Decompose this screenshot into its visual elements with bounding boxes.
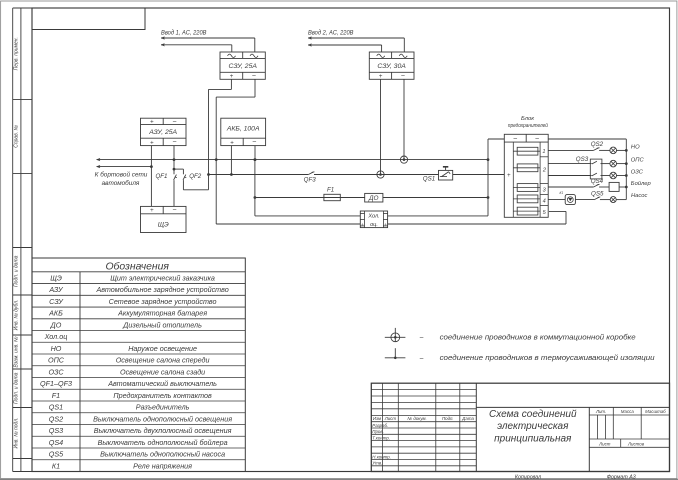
svg-text:ЩЭ: ЩЭ [50,273,62,282]
junction-box connection on positive line [377,171,384,178]
node: АКБ- on bus [254,158,257,161]
svg-text:Инв. № подл.: Инв. № подл. [14,417,20,448]
wire: heater line [255,197,365,199]
wire: СЗУ1 + jog to node [230,79,232,89]
wire: pin2 upper to QS3 [548,163,591,165]
table row QF1–QF3 [32,377,245,379]
node: АЗУ+ and arrow line [150,165,153,168]
svg-text:Перв. примен.: Перв. примен. [14,37,20,70]
switch QS4 [593,185,598,188]
svg-text:QS5: QS5 [49,450,64,459]
svg-text:+: + [379,73,383,80]
breaker QF3 [308,172,313,175]
title block right section [589,414,669,416]
svg-text:оц.: оц. [370,222,378,228]
node: НО on return bus [625,149,628,152]
fuses inside block [513,150,540,152]
svg-text:F1: F1 [52,391,60,400]
svg-text:Схема соединений: Схема соединений [489,409,577,420]
relay К1 box [565,195,575,205]
battery АКБ 100А [221,118,266,145]
svg-text:НО: НО [51,344,62,353]
svg-text:Т.контр.: Т.контр. [372,436,390,441]
table row ДО [32,318,245,320]
svg-text:Утв.: Утв. [372,461,382,466]
svg-text:Справ. №: Справ. № [14,124,20,147]
wire: input1 vert from upper line to СЗУ1 right ~ [254,38,256,52]
svg-text:QS2: QS2 [49,414,63,423]
wire: СЗУ1 - jog to bus [254,79,256,97]
table row К1 [32,459,245,461]
table row НО [32,341,245,343]
junction-box connection on bus [400,156,407,163]
svg-text:Н.контр.: Н.контр. [372,454,391,459]
wire: lamp НО to return bus [617,149,627,151]
switch QS3 two-pole box [590,159,602,179]
wire: input2 vert to СЗУ2 right ~ [403,38,405,52]
wire: СЗУ2- down to bus [403,79,405,159]
svg-text:+: + [230,73,234,80]
svg-text:QS4: QS4 [49,438,63,447]
svg-text:Выключатель однополюсный бойле: Выключатель однополюсный бойлера [98,438,228,447]
svg-text:принципиальная: принципиальная [494,433,572,444]
wire: QS2 to lamp НО [599,149,610,151]
svg-text:Блок: Блок [521,116,534,122]
svg-text:1: 1 [542,149,545,155]
wire: pin4 to relay К1 [548,199,565,201]
table row F1 [32,388,245,390]
wire: QS3 to lamp ОЗС [601,175,611,177]
wire: node column x208.5 (СЗУ1+/QF2/positive line) [208,89,210,189]
svg-text:Пров.: Пров. [372,429,384,434]
svg-text:Подп. и дата: Подп. и дата [14,372,20,404]
svg-text:–: – [172,118,177,125]
node: СЗУ1- on bus [215,158,218,161]
car charger АЗУ 25А [141,118,187,145]
title block [371,383,669,471]
svg-text:Выключатель однополюсный насос: Выключатель однополюсный насоса [100,450,225,459]
pump Насос symbol [610,197,616,203]
svg-text:СЗУ, 30А: СЗУ, 30А [377,63,406,70]
wire: Хол.оц upper-left feed [255,215,360,217]
svg-text:ОПС: ОПС [631,158,645,164]
boiler load box [609,182,619,191]
node: ОЗС on return bus [625,174,628,177]
svg-text:5: 5 [543,210,547,216]
wire: QF2 down and jog right [182,180,184,190]
wire: pin3 to QS4 [548,186,593,188]
svg-text:Копировал: Копировал [515,474,541,480]
svg-text:Ввод 2, AC, 220В: Ввод 2, AC, 220В [308,28,354,36]
svg-text:QS2: QS2 [591,141,604,148]
svg-text:QF1: QF1 [155,173,167,180]
node: positive line start [207,173,210,176]
wire: lamp ОПС to return bus [617,163,627,165]
wire: input2 vert to СЗУ2 left ~ [381,45,383,52]
svg-text:предохранителей: предохранителей [508,122,549,129]
svg-text:Лист: Лист [384,416,397,421]
wire: АЗУ+ down to ЩЭ+ [150,146,152,207]
svg-text:2: 2 [542,168,547,174]
wire: negative collector vertical x488 [487,139,489,216]
svg-text:Дата: Дата [461,416,474,421]
svg-text:соединение проводников в термо: соединение проводников в термоусаживающе… [440,353,655,362]
node: АКБ+ on positive line [230,173,233,176]
svg-text:автомобиля: автомобиля [102,179,140,187]
svg-text:+: + [361,222,364,227]
table row АЗУ [32,283,245,285]
svg-text:АКБ: АКБ [48,309,63,318]
svg-text:–: – [172,206,177,213]
svg-text:Реле напряжения: Реле напряжения [133,461,192,470]
wire: QS3 to lamp ОПС [601,163,611,165]
wire: pin5 riser [565,211,567,224]
table row QS2 [32,412,245,414]
fuse F1 [324,194,340,200]
svg-text:Подп.: Подп. [442,416,454,421]
table row Хол.оц [32,330,245,332]
customer electrical panel ЩЭ [141,206,187,232]
svg-text:АКБ, 100А: АКБ, 100А [226,126,260,133]
svg-text:Щит электрический заказчика: Щит электрический заказчика [110,273,215,282]
wire: QS5 to pump [600,199,610,201]
svg-text:F1: F1 [327,187,334,194]
wire: input1 upper line with arrow [161,37,255,39]
node: ОПС on return bus [625,162,628,165]
wire: positive line [209,174,309,176]
table row QS4 [32,435,245,437]
svg-text:QF1–QF3: QF1–QF3 [40,379,72,388]
lamp НО [610,147,617,154]
svg-text:ДО: ДО [368,195,378,202]
wire: СЗУ1- vertical to bus and Хол.оц [215,97,217,224]
svg-text:Освещение салона сзади: Освещение салона сзади [120,367,205,376]
svg-text:ОЗС: ОЗС [48,367,64,376]
breaker QF1 [174,175,177,181]
wire: QF2 branch horizontal [174,168,183,170]
charger СЗУ 30А [369,52,414,79]
switch QS5 [594,197,599,200]
svg-text:НО: НО [631,144,640,150]
wire: input1 vert from lower line to СЗУ1 left ~ [231,45,233,52]
svg-text:Листов: Листов [627,442,645,447]
svg-text:QS5: QS5 [591,190,604,197]
svg-text:+: + [150,139,154,146]
svg-text:Взам. инв. №: Взам. инв. № [14,336,20,368]
svg-text:СЗУ: СЗУ [49,297,64,306]
node: bus end on collector [487,158,490,161]
node: heater line left [254,196,257,199]
svg-text:Разъединитель: Разъединитель [136,403,190,412]
svg-text:ДО: ДО [50,320,62,329]
wire: АЗУ- from bus to QF1 [173,160,175,175]
wire: Хол.оц upper-right to fuse block minus [388,215,488,217]
table row QS5 [32,447,245,449]
table row АКБ [32,306,245,308]
svg-text:Автоматический выключатель: Автоматический выключатель [107,379,217,388]
table row СЗУ [32,294,245,296]
svg-text:Предохранитель контактов: Предохранитель контактов [113,391,212,400]
charger СЗУ 25А [220,52,265,79]
svg-text:Автомобильное зарядное устройс: Автомобильное зарядное устройство [95,285,228,294]
svg-text:Изм: Изм [373,416,381,421]
svg-text:–: – [419,335,424,342]
svg-text:Сетевое зарядное устройство: Сетевое зарядное устройство [109,297,217,306]
left margin strip columns [12,8,14,472]
svg-text:ОЗС: ОЗС [631,169,644,175]
svg-text:–: – [400,72,405,79]
svg-text:Лист: Лист [598,442,611,447]
svg-text:Разраб.: Разраб. [372,423,388,428]
node: АЗУ- on bus [173,158,176,161]
svg-text:Лит.: Лит. [595,409,606,414]
svg-text:Бойлер: Бойлер [631,180,652,187]
wire: QF2 vertical top [182,169,184,174]
svg-text:QS1: QS1 [49,403,63,412]
svg-text:Обозначения: Обозначения [105,261,169,273]
wire: pin2 lower to QS3 [548,175,591,177]
legend symbol: junction box connection [385,336,406,338]
svg-text:+: + [507,173,511,179]
lamp ОПС [610,160,617,167]
svg-text:–: – [251,72,256,79]
svg-text:+: + [150,207,154,214]
node: heater line end on collector [487,196,490,199]
svg-text:Хол.оц: Хол.оц [44,332,68,341]
svg-text:Инв. № дубл.: Инв. № дубл. [14,300,20,331]
svg-text:АЗУ: АЗУ [48,285,64,294]
svg-text:Освещение салона спереди: Освещение салона спереди [116,356,210,365]
svg-text:Наружое освещение: Наружое освещение [128,344,197,353]
wire: relay К1 to QS5 [575,199,594,201]
node: boiler on return bus [625,186,628,189]
node: QF1/QF2 branch corner [173,168,176,171]
svg-text:4: 4 [543,198,546,204]
svg-text:+: + [150,119,154,126]
svg-text:–: – [534,135,539,142]
svg-text:Формат А3: Формат А3 [607,474,636,480]
legend symbol: heat-shrink connection [385,357,406,359]
node: x254.9 on bus [254,158,257,161]
svg-text:–: – [172,139,177,146]
svg-text:соединение проводников в комму: соединение проводников в коммутационной … [440,333,636,342]
svg-text:Аккумуляторная батарея: Аккумуляторная батарея [117,309,207,318]
svg-text:Хол.: Хол. [367,213,379,219]
svg-text:Подп. и дата: Подп. и дата [14,255,20,287]
svg-text:QS4: QS4 [591,178,604,185]
svg-text:3: 3 [543,188,547,194]
svg-text:Выключатель двухполюсный освещ: Выключатель двухполюсный освещения [94,426,232,435]
top-left designation box [32,8,145,30]
svg-text:СЗУ, 25А: СЗУ, 25А [229,63,258,70]
wire: input2 lower line with arrow [308,44,382,46]
svg-text:QS3: QS3 [576,156,589,163]
wire: collector top to fuse block left minus [488,138,504,140]
wire: АКБ+ down [230,146,232,175]
wire: QS4 to boiler box [599,186,609,188]
svg-text:Масса: Масса [621,409,635,414]
svg-text:–: – [513,135,518,142]
svg-text:ОПС: ОПС [48,356,65,365]
svg-text:К бортовой сети: К бортовой сети [95,171,148,179]
wire: boiler to return bus [619,186,626,188]
wire: Хол.оц lower-right long wire to pin5 [388,223,566,225]
wire: СЗУ2+ down to positive line [380,79,382,174]
wire: Хол.оц lower-left feed [216,223,360,225]
wire: QF1 to ЩЭ- [173,180,175,206]
disconnector QS1 [439,170,453,180]
svg-text:Масштаб: Масштаб [645,409,666,414]
heater ДО box [365,193,383,202]
svg-text:АЗУ, 25А: АЗУ, 25А [148,129,177,136]
breaker QF2 [183,175,186,181]
svg-text:–: – [252,139,257,146]
table row QS3 [32,424,245,426]
svg-text:QF2: QF2 [189,173,202,180]
wire: АКБ- down to bus [254,146,256,160]
svg-text:К1: К1 [559,191,563,195]
fuse block right terminal cells [540,156,548,158]
table row ОПС [32,353,245,355]
wire: input1 lower line with arrow [161,44,232,46]
svg-text:Насос: Насос [631,193,648,199]
table row ОЗС [32,365,245,367]
wire: fuse block right minus to return bus [548,138,626,140]
wire: second arrow line to АЗУ+ [97,166,152,168]
wire: input2 upper line with arrow [308,37,404,39]
wire: pin1 to QS2 [548,149,593,151]
title block document name [476,406,669,408]
svg-text:ЩЭ: ЩЭ [158,221,169,228]
designations table [32,258,245,472]
lamp ОЗС [610,172,617,179]
svg-text:–: – [419,355,424,362]
svg-text:QF3: QF3 [304,176,317,183]
wire: return bus vertical [625,139,627,200]
wire: main bus to vehicle network [97,159,489,161]
switch QS2 [593,148,598,151]
svg-text:№ докум.: № докум. [407,416,426,421]
svg-text:К1: К1 [52,461,60,470]
svg-text:Дизельный отопитель: Дизельный отопитель [122,320,202,329]
refrigerator Хол.оц box [360,211,387,228]
svg-text:+: + [230,139,234,146]
table row QS1 [32,400,245,402]
svg-text:электрическая: электрическая [497,421,569,432]
svg-text:QS3: QS3 [49,426,63,435]
wire: x254.9 vertical from bus to Хол.оц upper [254,160,256,216]
svg-text:Ввод 1, AC, 220В: Ввод 1, AC, 220В [161,28,207,36]
wire: pump to return bus corner [616,199,626,201]
svg-text:QS1: QS1 [423,175,435,182]
svg-text:+: + [384,222,387,227]
svg-text:Выключатель однополюсный освещ: Выключатель однополюсный освещения [93,414,232,423]
wire: АЗУ- down to bus [173,146,175,160]
wire: lamp ОЗС to return bus [617,175,627,177]
